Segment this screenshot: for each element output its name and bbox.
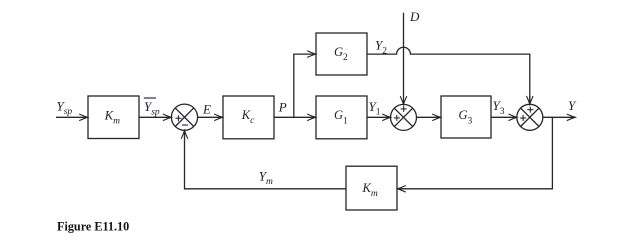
block Km feedback bbox=[346, 166, 397, 210]
svg-text:Km: Km bbox=[104, 108, 120, 126]
svg-text:Ysp: Ysp bbox=[57, 99, 73, 118]
summing junction 2 bbox=[391, 104, 417, 130]
wire output Y bbox=[543, 116, 575, 118]
wire P to G1 bbox=[274, 116, 316, 118]
wire Y2 from G2 with hump over D then down to summing junction 3 bbox=[367, 47, 530, 102]
sign plus J2 left bbox=[394, 115, 400, 121]
svg-text:G2: G2 bbox=[334, 45, 348, 63]
svg-text:Km: Km bbox=[362, 181, 378, 199]
svg-text:Figure E11.10: Figure E11.10 bbox=[57, 220, 129, 234]
wire branch P up to G2 bbox=[294, 54, 316, 117]
svg-text:Y1: Y1 bbox=[369, 99, 381, 118]
svg-text:Ysp: Ysp bbox=[144, 99, 160, 118]
svg-text:Y: Y bbox=[568, 98, 577, 113]
block G3 bbox=[441, 96, 491, 138]
sign plus J3 left bbox=[520, 115, 526, 121]
block Kc bbox=[223, 96, 274, 139]
svg-text:E: E bbox=[202, 101, 211, 116]
summing junction 1 bbox=[171, 104, 197, 130]
wire feedback tap down and left to Km feedback bbox=[397, 117, 552, 189]
wire summing junction 2 to G3 bbox=[417, 116, 441, 118]
sign plus J2 top bbox=[401, 106, 407, 112]
block Km setpoint bbox=[88, 96, 139, 139]
wire Y3 to summing junction 3 bbox=[491, 116, 517, 118]
svg-text:Y3: Y3 bbox=[493, 98, 505, 117]
block G1 bbox=[316, 96, 367, 139]
wire E to Kc bbox=[198, 116, 223, 118]
sign plus J1 left bbox=[175, 115, 181, 121]
block G2 bbox=[316, 33, 367, 75]
wire Ym left and up to summing junction 1 bbox=[185, 130, 347, 188]
svg-text:D: D bbox=[409, 9, 420, 24]
svg-text:P: P bbox=[278, 99, 287, 114]
svg-text:Ym: Ym bbox=[259, 169, 273, 188]
wire Y1 to summing junction 2 bbox=[367, 116, 391, 118]
sign minus J1 bottom bbox=[182, 124, 188, 126]
wire input Ysp bbox=[56, 116, 88, 118]
svg-text:Kc: Kc bbox=[241, 108, 255, 126]
wire D down to summing junction 2 bbox=[403, 13, 405, 105]
label Ysp-bar bbox=[144, 98, 160, 118]
summing junction 3 bbox=[517, 104, 543, 130]
svg-text:G3: G3 bbox=[459, 108, 473, 126]
sign plus J3 top bbox=[527, 107, 533, 113]
svg-text:G1: G1 bbox=[334, 108, 348, 126]
wire Km to summing junction 1 bbox=[139, 116, 171, 118]
